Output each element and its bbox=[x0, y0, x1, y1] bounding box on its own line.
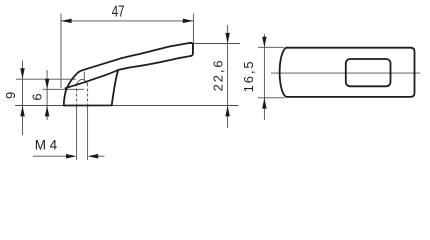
hidden line hole right bbox=[87, 84, 89, 106]
dimension line 47 bbox=[61, 20, 193, 22]
svg-text:6: 6 bbox=[30, 93, 45, 100]
hole cone tip line bbox=[83, 72, 85, 80]
arrow M4 right bbox=[88, 154, 99, 159]
extension line thread depth (for 6) bbox=[43, 88, 85, 90]
arrow 9 bottom bbox=[20, 106, 25, 117]
top view recess rectangle bbox=[346, 59, 391, 86]
arrow M4 left bbox=[66, 154, 77, 159]
extension line 16,5 top bbox=[258, 46, 284, 48]
dimension line 9 bbox=[22, 61, 24, 136]
extension line 47 right bbox=[192, 14, 194, 51]
hole top arc bbox=[77, 79, 88, 84]
arrow 16,5 bottom bbox=[262, 98, 267, 109]
extension line bottom (hub base, to 22,6) bbox=[15, 105, 239, 107]
dimension line M4 left segment bbox=[33, 155, 67, 157]
extension line M4 right bbox=[87, 106, 89, 161]
extension line 16,5 bottom bbox=[258, 97, 284, 99]
arrow 9 top bbox=[20, 68, 25, 79]
extension line M4 left bbox=[76, 106, 78, 161]
arrow 16,5 top bbox=[262, 37, 267, 48]
arrow 47 right bbox=[183, 19, 194, 24]
arrow 22,6 bottom bbox=[225, 106, 230, 117]
svg-text:16,5: 16,5 bbox=[241, 59, 256, 92]
lever outline (side view) bbox=[64, 43, 193, 106]
arrow 47 left bbox=[61, 19, 72, 24]
arrows bbox=[20, 19, 266, 159]
hidden line hole left bbox=[76, 84, 78, 106]
arrow 6 top bbox=[45, 79, 50, 90]
extension line hole top (for 9) bbox=[16, 78, 76, 80]
svg-text:M 4: M 4 bbox=[35, 137, 58, 152]
extension line 47 left bbox=[60, 14, 62, 89]
extension line tip top (for 22,6) bbox=[189, 43, 240, 45]
hidden hole M4 dashed lines bbox=[77, 84, 88, 106]
dimension line 6 bbox=[46, 70, 48, 120]
thin lines group bbox=[15, 14, 420, 161]
svg-text:47: 47 bbox=[112, 4, 125, 21]
dimension line 16,5 bbox=[263, 34, 265, 120]
dimension line 22,6 bbox=[227, 25, 229, 128]
lever inner edge (hub/arm blend) bbox=[65, 70, 118, 88]
centerline top view bbox=[271, 72, 420, 74]
svg-text:9: 9 bbox=[3, 92, 18, 99]
dimension line M4 right segment bbox=[97, 155, 104, 157]
top view outline bbox=[280, 48, 415, 97]
arrow 6 bottom bbox=[45, 106, 50, 117]
svg-text:22,6: 22,6 bbox=[211, 58, 226, 91]
arrow 22,6 top bbox=[225, 33, 230, 44]
